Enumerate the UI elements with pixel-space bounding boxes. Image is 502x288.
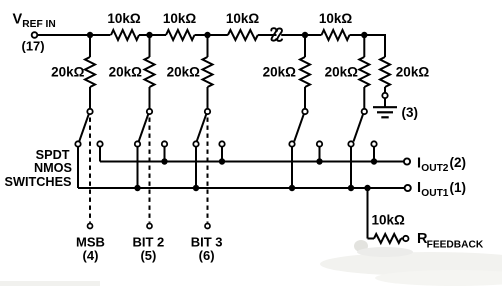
- junction S3 / IOUT2: [219, 158, 225, 164]
- wire S1 left contact to IOUT1 bus: [77, 147, 79, 188]
- resistor 10k R-4: [322, 30, 350, 40]
- node 1 on top rail: [87, 32, 93, 38]
- node 3 on top rail: [204, 32, 210, 38]
- resistor 10k R-1: [111, 30, 139, 40]
- svg-text:10kΩ: 10kΩ: [107, 11, 141, 26]
- wire S4 left contact to IOUT1 bus: [291, 147, 293, 188]
- wire top rail: [37, 34, 110, 36]
- wire IOUT1 bus: [78, 187, 404, 189]
- junction S3 / IOUT1: [193, 185, 199, 191]
- resistor 10k R-3: [228, 30, 258, 40]
- wire S3 left contact to IOUT1 bus: [195, 147, 197, 188]
- switch S4 contact right: [317, 141, 322, 146]
- switch S2 contact left: [135, 141, 140, 146]
- wire node 3 down: [207, 35, 209, 57]
- svg-text:OUT2: OUT2: [421, 163, 449, 174]
- svg-text:20kΩ: 20kΩ: [325, 65, 359, 80]
- switch S2 arm: [139, 114, 149, 141]
- wire S2 left contact to IOUT1 bus: [137, 147, 139, 188]
- switch S5 contact right: [371, 141, 376, 146]
- svg-text:(5): (5): [140, 248, 156, 263]
- resistor 20k branch 1: [85, 57, 95, 87]
- switch S4 contact left: [289, 141, 294, 146]
- junction S2 / IOUT2: [161, 158, 167, 164]
- resistor 20k branch 2: [145, 57, 155, 87]
- svg-text:10kΩ: 10kΩ: [319, 11, 353, 26]
- svg-text:NMOS: NMOS: [34, 161, 72, 175]
- junction S4 / IOUT2: [316, 158, 322, 164]
- switch S4 arm: [294, 114, 304, 141]
- svg-text:OUT1: OUT1: [421, 188, 449, 199]
- resistor 20k branch 5: [359, 57, 369, 87]
- wire node 1 down: [89, 35, 91, 57]
- junction S2 / IOUT1: [134, 185, 140, 191]
- svg-text:20kΩ: 20kΩ: [396, 65, 430, 80]
- terminal MSB: [88, 224, 93, 229]
- wire S4 right contact to IOUT2 bus: [319, 147, 321, 162]
- dashed control line BIT3: [207, 118, 209, 223]
- svg-text:20kΩ: 20kΩ: [51, 65, 85, 80]
- switch S2 pole circle: [147, 109, 152, 114]
- svg-text:(2): (2): [450, 155, 467, 170]
- junction S5 / IOUT1: [348, 185, 354, 191]
- wire IOUT2 bus: [100, 161, 404, 163]
- resistor 10k RFEEDBACK: [368, 238, 375, 240]
- break symbol (ladder continues): [271, 28, 276, 40]
- svg-text:20kΩ: 20kΩ: [263, 65, 297, 80]
- wire S2 right contact to IOUT2 bus: [164, 147, 166, 162]
- wire S5 left contact to IOUT1 bus: [350, 147, 352, 188]
- svg-text:20kΩ: 20kΩ: [167, 65, 201, 80]
- switch S1 pole circle: [87, 109, 92, 114]
- terminal VREF IN (17): [32, 32, 38, 38]
- resistor 20k branch 3: [203, 57, 213, 87]
- switch S3 contact left: [193, 141, 198, 146]
- junction S4 / IOUT1: [289, 185, 295, 191]
- switch S1 contact right: [97, 141, 102, 146]
- switch S5 contact left: [348, 141, 353, 146]
- svg-text:FEEDBACK: FEEDBACK: [427, 239, 484, 250]
- svg-text:V: V: [13, 12, 23, 28]
- wire node 2 down: [149, 35, 151, 57]
- wire S1 right contact to IOUT2 bus: [99, 147, 101, 162]
- svg-text:10kΩ: 10kΩ: [372, 213, 406, 228]
- terminal BIT2: [147, 224, 152, 229]
- wire feedback tap down: [367, 188, 369, 239]
- resistor 20k (to ground): [380, 57, 390, 87]
- wire S5 right contact to IOUT2 bus: [373, 147, 375, 162]
- wire node 4 down: [304, 35, 306, 57]
- wire node 5 down: [363, 35, 365, 57]
- node 2 on top rail: [146, 32, 152, 38]
- junction S5 / IOUT2: [371, 158, 377, 164]
- terminal IOUT2 (2): [404, 158, 410, 164]
- node 4 on top rail: [302, 32, 308, 38]
- switch S5 arm: [354, 114, 364, 141]
- switch S2 contact right: [162, 141, 167, 146]
- svg-text:(4): (4): [83, 248, 99, 263]
- svg-text:(6): (6): [199, 248, 215, 263]
- svg-text:REF IN: REF IN: [22, 19, 55, 30]
- terminal BIT3: [205, 224, 210, 229]
- svg-text:(3): (3): [402, 105, 419, 120]
- dashed control line BIT2: [149, 118, 151, 223]
- resistor 10k R-2: [166, 30, 195, 40]
- resistor 20k branch 4: [300, 57, 310, 87]
- dashed control line MSB: [89, 118, 91, 223]
- svg-text:(17): (17): [22, 39, 45, 54]
- switch S4 pole circle: [302, 109, 307, 114]
- wire top rail to grounded 20k: [384, 34, 386, 57]
- node 5 on top rail: [361, 32, 367, 38]
- switch S3 arm: [197, 114, 207, 141]
- switch S1 contact left: [75, 141, 80, 146]
- junction feedback tap: [364, 185, 370, 191]
- ground symbol (3): [384, 98, 386, 107]
- terminal IOUT1 (1): [405, 185, 411, 191]
- ground terminal circle: [382, 93, 387, 98]
- svg-text:10kΩ: 10kΩ: [163, 11, 197, 26]
- svg-text:SWITCHES: SWITCHES: [5, 175, 72, 189]
- switch S3 pole circle: [205, 109, 210, 114]
- svg-text:10kΩ: 10kΩ: [226, 11, 260, 26]
- terminal RFEEDBACK: [403, 236, 408, 241]
- switch S1 arm: [79, 114, 89, 141]
- svg-text:20kΩ: 20kΩ: [109, 65, 143, 80]
- wire S3 right contact to IOUT2 bus: [221, 147, 223, 162]
- svg-text:(1): (1): [450, 180, 467, 195]
- switch S5 pole circle: [362, 109, 367, 114]
- switch S3 contact right: [219, 141, 224, 146]
